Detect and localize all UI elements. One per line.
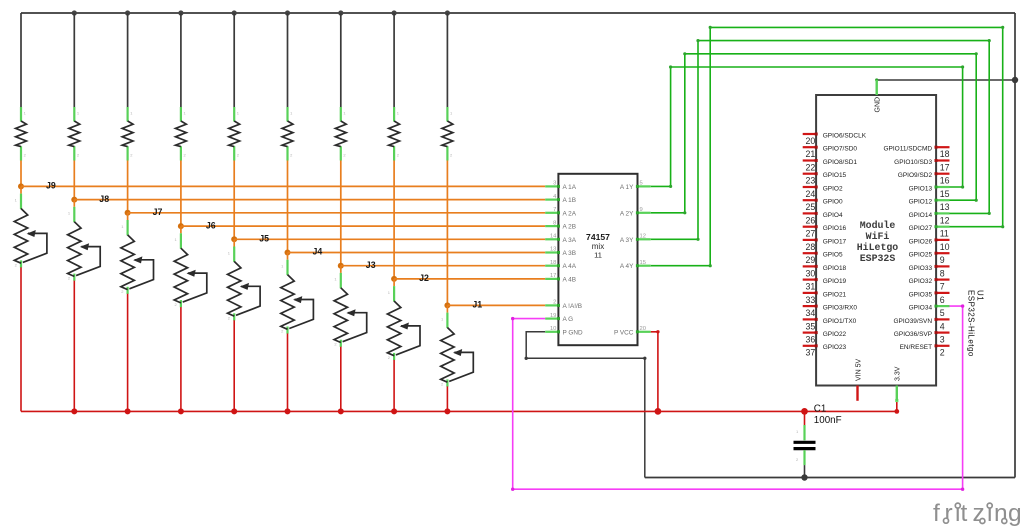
svg-text:J7: J7 — [153, 207, 163, 217]
wire J junction to P2 — [73, 200, 75, 207]
svg-text:A 3A: A 3A — [563, 237, 577, 244]
svg-text:GPIO23: GPIO23 — [823, 344, 847, 351]
node J junction col9 — [444, 302, 450, 308]
wire R9 to J junction — [446, 161, 448, 306]
junction red bus col7 — [338, 408, 344, 414]
wire right GND bus vertical — [1014, 13, 1016, 478]
ESP32 3.3V pin — [895, 366, 902, 401]
svg-text:100nF: 100nF — [814, 415, 842, 426]
label J1 — [472, 300, 482, 310]
label 74157 — [586, 232, 610, 242]
wire red bus to ESP32 3.3V — [896, 401, 898, 412]
svg-text:11: 11 — [594, 251, 602, 260]
node 3.3V lead tip — [895, 399, 898, 402]
svg-text:GPIO0: GPIO0 — [823, 199, 843, 206]
junction red bus col2 — [71, 408, 77, 414]
svg-text:GPIO16: GPIO16 — [823, 225, 847, 232]
svg-text:GPIO39/SVN: GPIO39/SVN — [893, 318, 932, 325]
svg-text:P VCC: P VCC — [614, 329, 634, 336]
wire R6 to J junction — [287, 161, 289, 253]
wire J1 horizontal — [447, 304, 545, 306]
svg-text:25: 25 — [806, 202, 816, 212]
junction top bus col4 — [178, 10, 183, 15]
svg-text:VIN 5V: VIN 5V — [855, 358, 862, 381]
wire P1 to red bus — [20, 267, 22, 411]
resistor R4 — [176, 107, 187, 161]
svg-text:5: 5 — [640, 181, 643, 187]
svg-text:9: 9 — [640, 207, 643, 213]
svg-text:GPIO36/SVP: GPIO36/SVP — [894, 331, 932, 338]
svg-text:GPIO1/TX0: GPIO1/TX0 — [823, 318, 857, 325]
wire 74157 PVCC to red bus — [651, 332, 658, 412]
wire P8 to red bus — [393, 360, 395, 412]
svg-text:35: 35 — [806, 321, 816, 331]
potentiometer P1 — [14, 194, 47, 268]
svg-text:13: 13 — [550, 247, 556, 253]
svg-text:A 3B: A 3B — [563, 250, 577, 257]
svg-text:24: 24 — [806, 189, 816, 199]
svg-text:15: 15 — [640, 260, 646, 266]
svg-text:20: 20 — [640, 326, 646, 332]
wire P5 to red bus — [233, 320, 235, 411]
wire P6 to red bus — [287, 334, 289, 412]
svg-text:GPIO19: GPIO19 — [823, 278, 847, 285]
svg-text:30: 30 — [806, 268, 816, 278]
potentiometer P8 — [387, 286, 420, 360]
svg-text:C1: C1 — [814, 404, 827, 415]
label C1 — [814, 404, 827, 415]
label mix — [592, 242, 604, 251]
junction top bus col9 — [445, 10, 450, 15]
potentiometer P9 — [441, 313, 474, 387]
wire R4 to J junction — [180, 161, 182, 227]
svg-text:6: 6 — [940, 295, 945, 305]
junction red bus C1 — [801, 408, 808, 415]
svg-text:37: 37 — [806, 348, 816, 358]
svg-text:14: 14 — [550, 234, 557, 240]
wire A 2Y to GPIO12 bends — [683, 52, 978, 214]
svg-text:28: 28 — [806, 242, 816, 252]
wire top bus to R9 — [446, 13, 448, 107]
node magenta bends — [511, 304, 964, 491]
svg-text:GPIO9/SD2: GPIO9/SD2 — [898, 172, 933, 179]
label U1 ESP32S-HiLetgo — [967, 290, 985, 357]
junction capacitor C1 to GND bus — [801, 474, 807, 480]
wire P7 to red bus — [340, 347, 342, 412]
svg-text:74157: 74157 — [586, 232, 610, 242]
wire J4 horizontal — [288, 252, 546, 254]
wire R1 to J junction — [20, 161, 22, 187]
svg-text:J8: J8 — [99, 194, 109, 204]
svg-text:ESP32S: ESP32S — [860, 253, 896, 264]
wire 74157 PGND down-route — [526, 332, 645, 478]
wire P2 to red bus — [73, 281, 75, 412]
svg-text:20: 20 — [806, 136, 816, 146]
potentiometer P2 — [68, 207, 101, 281]
svg-text:18: 18 — [550, 260, 556, 266]
wire R5 to J junction — [233, 161, 235, 240]
74157 right pins — [614, 181, 651, 337]
svg-text:33: 33 — [806, 295, 816, 305]
svg-text:12: 12 — [640, 234, 646, 240]
resistor R8 — [389, 107, 400, 161]
junction top bus col2 — [72, 10, 77, 15]
wire top bus to R2 — [73, 13, 75, 107]
svg-text:A !A!/B: A !A!/B — [563, 303, 583, 310]
junction red bus col6 — [285, 408, 291, 414]
wire J3 horizontal — [341, 265, 545, 267]
svg-text:P GND: P GND — [563, 329, 584, 336]
svg-text:2: 2 — [553, 300, 556, 306]
node PGND bend 2 — [643, 357, 646, 360]
node J junction col3 — [125, 210, 131, 216]
svg-text:10: 10 — [550, 326, 556, 332]
node J junction col8 — [391, 276, 397, 282]
svg-text:GPIO27: GPIO27 — [909, 225, 933, 232]
svg-text:HiLetgo: HiLetgo — [857, 242, 899, 253]
wire ESP32 GND to right bus — [877, 79, 1015, 81]
svg-text:A 4Y: A 4Y — [620, 263, 634, 270]
wire A 4Y to GPIO27 bends — [709, 26, 1005, 268]
label J8 — [99, 194, 109, 204]
wire R8 to J junction — [393, 161, 395, 279]
resistor R9 — [442, 107, 453, 161]
svg-text:10: 10 — [940, 242, 950, 252]
wire top bus to R3 — [127, 13, 129, 107]
wire red VCC bus horizontal — [21, 410, 897, 412]
svg-text:29: 29 — [806, 255, 816, 265]
potentiometer P3 — [121, 220, 154, 294]
74157 left pins — [545, 181, 583, 337]
svg-text:3: 3 — [553, 181, 556, 187]
svg-text:GPIO8/SD1: GPIO8/SD1 — [823, 159, 858, 166]
svg-text:GPIO32: GPIO32 — [909, 278, 933, 285]
svg-text:36: 36 — [806, 335, 816, 345]
wire P9 to red bus — [446, 386, 448, 411]
svg-text:2: 2 — [940, 348, 945, 358]
svg-text:GPIO11/SDCMD: GPIO11/SDCMD — [883, 146, 932, 153]
potentiometer P4 — [174, 233, 207, 307]
svg-text:GPIO15: GPIO15 — [823, 172, 847, 179]
node red bus end at 3.3V — [894, 409, 899, 414]
svg-text:13: 13 — [940, 202, 950, 212]
wire J junction to P5 — [233, 239, 235, 246]
svg-text:GPIO21: GPIO21 — [823, 291, 847, 298]
wire J junction to P4 — [180, 226, 182, 233]
wire J junction to P8 — [393, 279, 395, 286]
svg-text:EN/RESET: EN/RESET — [900, 344, 933, 351]
junction right GND bus — [1012, 77, 1018, 83]
svg-text:GPIO35: GPIO35 — [909, 291, 933, 298]
junction red bus col9 — [444, 408, 450, 414]
wire top bus to R5 — [233, 13, 235, 107]
node J junction col1 — [18, 183, 24, 189]
svg-text:GPIO14: GPIO14 — [909, 212, 933, 219]
node J junction col7 — [338, 263, 344, 269]
junction top bus col6 — [285, 10, 290, 15]
wire A 1Y to GPIO13 bends — [669, 65, 964, 188]
svg-text:A 1B: A 1B — [563, 197, 577, 204]
wire J7 horizontal — [128, 212, 546, 214]
svg-text:12: 12 — [940, 215, 950, 225]
svg-text:GPIO7/SD0: GPIO7/SD0 — [823, 146, 858, 153]
wire R3 to J junction — [127, 161, 129, 213]
svg-text:GPIO6/SDCLK: GPIO6/SDCLK — [823, 132, 867, 139]
wire R2 to J junction — [73, 161, 75, 200]
node PGND bend 1 — [525, 357, 528, 360]
junction top bus col5 — [232, 10, 237, 15]
label J3 — [366, 260, 376, 270]
label J4 — [313, 247, 323, 257]
node J junction col5 — [231, 236, 237, 242]
ESP32 right pins — [883, 146, 949, 358]
potentiometer P7 — [334, 273, 367, 347]
label J7 — [153, 207, 163, 217]
svg-text:GPIO26: GPIO26 — [909, 238, 933, 245]
svg-text:GPIO4: GPIO4 — [823, 212, 843, 219]
junction red bus col8 — [391, 408, 397, 414]
wire top bus to R6 — [287, 13, 289, 107]
ESP32 module U1 body — [816, 95, 936, 386]
IC U2 74157 multiplexer body — [558, 174, 637, 345]
svg-text:A 1A: A 1A — [563, 184, 577, 191]
svg-text:3.3V: 3.3V — [895, 366, 902, 381]
node J junction col4 — [178, 223, 184, 229]
wire A 3Y to GPIO14 bends — [696, 39, 990, 241]
label Module WiFi HiLetgo ESP32S — [857, 220, 899, 264]
resistor R5 — [229, 107, 240, 161]
label J5 — [259, 234, 269, 244]
svg-text:WiFi: WiFi — [866, 231, 890, 242]
svg-text:GPIO12: GPIO12 — [909, 199, 933, 206]
svg-text:GPIO33: GPIO33 — [909, 265, 933, 272]
svg-text:17: 17 — [550, 273, 556, 279]
wire J9 horizontal — [21, 185, 545, 187]
resistor R2 — [69, 107, 80, 161]
resistor R6 — [282, 107, 293, 161]
wire J2 horizontal — [394, 278, 545, 280]
svg-text:Module: Module — [860, 220, 896, 231]
wire J junction to P6 — [287, 253, 289, 260]
capacitor C1 — [794, 411, 816, 477]
svg-text:GPIO34: GPIO34 — [909, 305, 933, 312]
svg-text:23: 23 — [806, 176, 816, 186]
svg-text:21: 21 — [806, 149, 816, 159]
svg-text:A 2A: A 2A — [563, 210, 577, 217]
fritzing watermark — [933, 500, 1022, 527]
svg-text:22: 22 — [806, 162, 816, 172]
label J6 — [206, 220, 216, 230]
svg-text:7: 7 — [553, 207, 556, 213]
svg-text:J1: J1 — [472, 300, 482, 310]
svg-text:3: 3 — [940, 335, 945, 345]
potentiometer P5 — [228, 247, 261, 321]
ESP32 VIN 5V pin — [855, 358, 862, 400]
svg-text:A G: A G — [563, 316, 574, 323]
svg-text:GPIO13: GPIO13 — [909, 185, 933, 192]
resistor R7 — [335, 107, 346, 161]
node GND wire bend — [875, 78, 878, 81]
svg-text:31: 31 — [806, 282, 816, 292]
svg-text:5: 5 — [940, 308, 945, 318]
junction top bus col7 — [338, 10, 343, 15]
wire J junction to P9 — [446, 305, 448, 312]
wire J8 horizontal — [74, 199, 545, 201]
svg-text:8: 8 — [940, 268, 945, 278]
junction red bus col5 — [231, 408, 237, 414]
wire A 2Y to GPIO12 — [651, 54, 977, 213]
svg-text:GPIO10/SD3: GPIO10/SD3 — [894, 159, 932, 166]
wire J junction to P7 — [340, 266, 342, 273]
junction red bus col4 — [178, 408, 184, 414]
svg-text:34: 34 — [806, 308, 816, 318]
wire P3 to red bus — [127, 294, 129, 412]
junction top bus col3 — [125, 10, 130, 15]
wire J junction to P1 — [20, 186, 22, 193]
svg-text:GPIO25: GPIO25 — [909, 252, 933, 259]
junction red bus 74157 VCC — [655, 408, 662, 415]
svg-text:J3: J3 — [366, 260, 376, 270]
svg-text:8: 8 — [553, 220, 556, 226]
svg-text:11: 11 — [940, 229, 949, 239]
ESP32 GND pin — [875, 80, 882, 113]
label J9 — [46, 181, 56, 191]
wire 74157 AG to GPIO34 (select) — [513, 306, 963, 489]
svg-text:J2: J2 — [419, 273, 429, 283]
svg-text:19: 19 — [550, 313, 556, 319]
svg-text:A 2Y: A 2Y — [620, 210, 634, 217]
wire A 3Y to GPIO14 — [651, 41, 990, 240]
wire P4 to red bus — [180, 307, 182, 411]
resistor R3 — [122, 107, 133, 161]
svg-text:27: 27 — [806, 229, 816, 239]
wire top bus to R8 — [393, 13, 395, 107]
wire top GND bus horizontal — [21, 12, 1015, 14]
svg-text:J4: J4 — [313, 247, 323, 257]
svg-text:7: 7 — [940, 282, 945, 292]
node J junction col2 — [71, 197, 77, 203]
svg-text:J5: J5 — [259, 234, 269, 244]
svg-text:GPIO2: GPIO2 — [823, 185, 843, 192]
svg-text:GPIO5: GPIO5 — [823, 252, 843, 259]
potentiometer P6 — [281, 260, 314, 334]
wire J6 horizontal — [181, 225, 545, 227]
svg-text:GPIO3/RX0: GPIO3/RX0 — [823, 305, 858, 312]
svg-text:J6: J6 — [206, 220, 216, 230]
wire top bus to R4 — [180, 13, 182, 107]
svg-text:J9: J9 — [46, 181, 56, 191]
svg-text:4: 4 — [940, 321, 945, 331]
wire J5 horizontal — [234, 238, 545, 240]
wire R7 to J junction — [340, 161, 342, 266]
label 11 — [594, 251, 602, 260]
svg-text:GPIO17: GPIO17 — [823, 238, 847, 245]
label J2 — [419, 273, 429, 283]
node J junction col6 — [285, 250, 291, 256]
junction top bus col8 — [392, 10, 397, 15]
svg-text:A 2B: A 2B — [563, 224, 577, 231]
wire top bus to R7 — [340, 13, 342, 107]
svg-text:A 4A: A 4A — [563, 263, 577, 270]
svg-text:9: 9 — [940, 255, 945, 265]
svg-text:17: 17 — [940, 162, 950, 172]
svg-text:15: 15 — [940, 189, 950, 199]
svg-text:A 4B: A 4B — [563, 276, 577, 283]
wire top bus to R1 — [20, 13, 22, 107]
svg-text:A 1Y: A 1Y — [620, 184, 634, 191]
svg-text:GPIO18: GPIO18 — [823, 265, 847, 272]
svg-text:16: 16 — [940, 176, 950, 186]
label 100nF — [814, 415, 842, 426]
svg-text:18: 18 — [940, 149, 950, 159]
svg-text:A 3Y: A 3Y — [620, 237, 634, 244]
node PVCC bend — [656, 330, 659, 333]
svg-text:26: 26 — [806, 215, 816, 225]
ESP32 left pins — [803, 132, 867, 357]
wire bottom GND bus horizontal — [645, 477, 1015, 479]
svg-text:GND: GND — [875, 97, 882, 113]
wire A 4Y to GPIO27 — [651, 27, 1003, 265]
svg-text:GPIO22: GPIO22 — [823, 331, 847, 338]
resistor R1 — [16, 107, 27, 161]
wire A 1Y to GPIO13 — [651, 67, 963, 187]
wire J junction to P3 — [127, 213, 129, 220]
junction red bus col3 — [125, 408, 131, 414]
